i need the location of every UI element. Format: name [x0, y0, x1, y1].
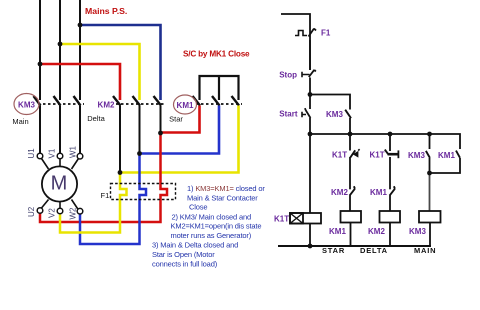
- svg-text:STAR: STAR: [322, 246, 345, 255]
- svg-text:MAIN: MAIN: [414, 246, 436, 255]
- svg-text:KM3: KM3: [18, 101, 35, 110]
- svg-text:KM1: KM1: [370, 188, 387, 197]
- svg-text:Delta: Delta: [87, 114, 105, 123]
- svg-text:U2: U2: [27, 206, 36, 217]
- svg-text:KM2: KM2: [331, 188, 348, 197]
- svg-text:connects in full load): connects in full load): [152, 260, 218, 269]
- svg-text:KM1: KM1: [438, 151, 455, 160]
- svg-text:KM2: KM2: [98, 101, 115, 110]
- svg-text:Star is Open (Motor: Star is Open (Motor: [152, 250, 215, 259]
- svg-text:M: M: [51, 173, 68, 195]
- svg-text:KM2=KM1=open(in dis state: KM2=KM1=open(in dis state: [171, 222, 262, 231]
- svg-text:W2: W2: [69, 207, 78, 220]
- svg-text:KM3: KM3: [409, 227, 426, 236]
- svg-text:F1: F1: [101, 191, 110, 200]
- svg-text:S/C by MK1 Close: S/C by MK1 Close: [183, 50, 250, 59]
- svg-text:K1T: K1T: [370, 151, 385, 160]
- svg-text:KM1: KM1: [329, 227, 346, 236]
- svg-text:2) KM3/ Main closed and: 2) KM3/ Main closed and: [172, 213, 252, 222]
- svg-text:Main & Star Contacter: Main & Star Contacter: [187, 194, 258, 203]
- svg-text:3) Main & Delta closed and: 3) Main & Delta closed and: [152, 241, 238, 250]
- svg-text:DELTA: DELTA: [360, 246, 388, 255]
- svg-text:Star: Star: [169, 115, 183, 124]
- svg-text:Close: Close: [189, 203, 207, 212]
- svg-text:K1T: K1T: [332, 151, 347, 160]
- svg-text:Mains P.S.: Mains P.S.: [85, 6, 127, 16]
- svg-text:1) KM3=KM1= closed or: 1) KM3=KM1= closed or: [187, 184, 265, 193]
- svg-text:KM2: KM2: [368, 227, 385, 236]
- svg-text:V2: V2: [48, 208, 57, 218]
- svg-text:W1: W1: [69, 145, 78, 158]
- svg-text:Start: Start: [279, 110, 298, 119]
- svg-text:Stop: Stop: [279, 71, 297, 80]
- svg-text:K1T: K1T: [274, 215, 289, 224]
- svg-text:V1: V1: [48, 148, 57, 158]
- svg-text:moter runs as Generator): moter runs as Generator): [171, 231, 252, 240]
- svg-text:F1: F1: [321, 29, 331, 38]
- svg-text:U1: U1: [27, 148, 36, 159]
- svg-text:Main: Main: [12, 117, 28, 126]
- svg-text:KM3: KM3: [408, 151, 425, 160]
- svg-text:KM3: KM3: [326, 110, 343, 119]
- svg-text:KM1: KM1: [177, 101, 194, 110]
